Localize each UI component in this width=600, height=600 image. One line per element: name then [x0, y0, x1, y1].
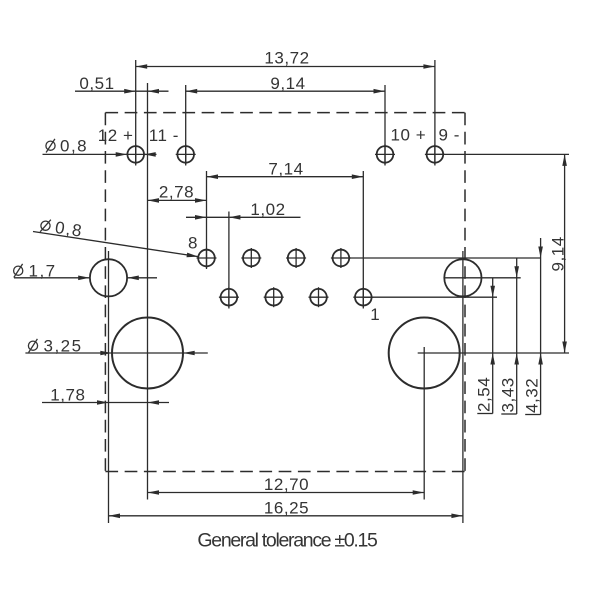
reference line pin 1 row [363, 296, 497, 298]
hole pin 5 [264, 287, 284, 307]
dimension 2,78 [148, 183, 207, 203]
hole pin 6 [241, 248, 261, 268]
hole pin 10 [375, 144, 395, 164]
connector housing outline right edge (dashed) [464, 113, 466, 472]
pin label 9 - [439, 126, 461, 145]
extension line pin 1 column [362, 171, 364, 309]
svg-text:General tolerance ±0.15: General tolerance ±0.15 [197, 530, 378, 552]
svg-text:13,72: 13,72 [264, 48, 309, 67]
connector housing outline top edge (dashed) [105, 112, 465, 114]
hole pin 8 [197, 248, 217, 268]
dimension 7,14 [207, 159, 364, 179]
hole pin 7 [219, 287, 239, 307]
pin label 12 + [98, 126, 134, 145]
svg-text:4,32: 4,32 [523, 378, 542, 413]
svg-text:7,14: 7,14 [268, 159, 303, 178]
centerline right big hole column [423, 347, 425, 500]
extension line pin 9 column [434, 60, 436, 166]
dimension 4,32 [523, 238, 543, 415]
centerline left mounting hole column [108, 251, 110, 523]
dimension 9,14 right [549, 154, 568, 353]
diameter dimension 3,25 [25, 336, 207, 355]
diameter leader 0,8 for pin 8 [33, 216, 198, 257]
centerline left big hole column [147, 83, 149, 500]
dimension 1,02 [186, 200, 301, 219]
left 3.25mm mounting hole [112, 318, 183, 389]
svg-text:9,14: 9,14 [270, 74, 305, 93]
hole pin 11 [176, 144, 196, 164]
diameter dimension 1,7 [14, 261, 157, 280]
reference line right small hole row [444, 277, 520, 279]
svg-text:9,14: 9,14 [549, 236, 568, 271]
svg-text:1,7: 1,7 [29, 261, 57, 280]
right 1.7mm mounting hole [444, 259, 481, 296]
dimension 9,14 top [186, 74, 385, 93]
dimension 16,25 [109, 498, 463, 518]
svg-text:3,25: 3,25 [44, 336, 83, 355]
connector housing outline bottom edge (dashed) [105, 471, 465, 473]
dimension 12,70 [148, 475, 425, 495]
hole pin 1 [353, 287, 373, 307]
dimension 0,51 [75, 74, 169, 93]
svg-text:10 +: 10 + [391, 126, 427, 145]
dimension 2,54 [475, 278, 495, 414]
extension line pin 7 column [228, 212, 230, 309]
svg-text:0,8: 0,8 [60, 136, 88, 155]
right 3.25mm mounting hole [389, 318, 460, 389]
svg-text:1,02: 1,02 [250, 200, 285, 219]
general tolerance note [197, 530, 378, 552]
svg-text:12,70: 12,70 [264, 475, 309, 494]
centerline right mounting hole column [462, 251, 464, 523]
left 1.7mm mounting hole [90, 259, 127, 296]
reference line pin 2 row [341, 257, 541, 259]
pin number 1 label [370, 305, 380, 324]
reference line pin 9 row [426, 153, 569, 155]
svg-text:12 +: 12 + [98, 126, 134, 145]
svg-text:8: 8 [188, 234, 198, 253]
svg-text:0,51: 0,51 [79, 74, 114, 93]
svg-text:1: 1 [370, 305, 380, 324]
hole pin 12 [126, 144, 146, 164]
svg-text:2,54: 2,54 [475, 377, 494, 412]
dimension 1,78 [42, 386, 169, 405]
hole pin 9 [425, 144, 445, 164]
diameter label 0,8 for pin 12 [43, 136, 157, 156]
svg-text:1,78: 1,78 [50, 386, 85, 405]
extension line pin 12 column [135, 60, 137, 166]
reference line big holes row [418, 352, 569, 354]
svg-text:3,43: 3,43 [499, 377, 518, 412]
extension line pin 10 column [384, 85, 386, 166]
svg-text:9 -: 9 - [439, 126, 461, 145]
svg-text:2,78: 2,78 [159, 183, 194, 202]
connector housing outline left edge (dashed) [104, 113, 106, 472]
hole pin 2 [331, 248, 351, 268]
pin label 11 - [149, 126, 179, 145]
hole pin 3 [309, 287, 329, 307]
hole pin 4 [286, 248, 306, 268]
pin label 10 + [391, 126, 427, 145]
dimension 3,43 [499, 258, 519, 414]
extension line pin 11 column [185, 85, 187, 166]
extension line pin 8 column [206, 171, 208, 269]
svg-text:11 -: 11 - [149, 126, 179, 145]
pin number 8 label [188, 234, 198, 253]
svg-text:16,25: 16,25 [264, 498, 309, 517]
dimension 13,72 [136, 48, 435, 69]
